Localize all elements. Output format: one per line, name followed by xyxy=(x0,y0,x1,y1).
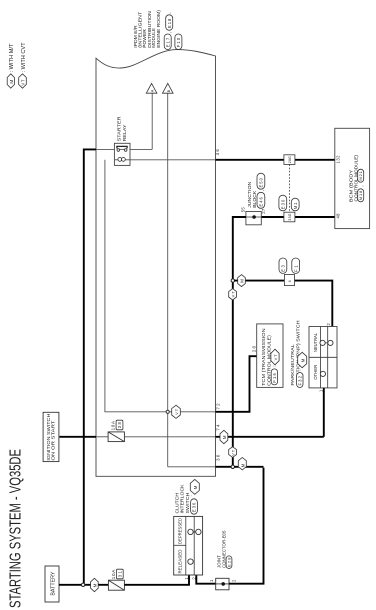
svg-text:A: A xyxy=(151,89,155,92)
inline connector square (pin 28) on line 46 xyxy=(284,155,295,165)
svg-text:E46: E46 xyxy=(259,196,264,206)
svg-text:20: 20 xyxy=(251,345,256,352)
svg-text:VT: VT xyxy=(231,449,236,456)
svg-text:31: 31 xyxy=(117,571,122,578)
fuse 31 xyxy=(108,580,124,590)
svg-text:ON OR START: ON OR START xyxy=(51,420,56,460)
wire triangle B riser xyxy=(167,93,169,467)
svg-text:RELEASED: RELEASED xyxy=(178,549,183,574)
svg-text:M: M xyxy=(300,358,305,362)
svg-text:46: 46 xyxy=(215,149,220,156)
wire pin 74 to PNP pin 1 riser xyxy=(216,436,324,438)
wire triangle A riser xyxy=(151,93,153,149)
svg-text:,: , xyxy=(259,190,264,191)
connector oval E30 xyxy=(279,195,287,211)
connector oval F16 xyxy=(271,365,277,385)
svg-text::: : xyxy=(297,369,302,370)
node J2 (open circle) xyxy=(231,465,234,468)
svg-text:M: M xyxy=(9,80,14,84)
connector oval M18 xyxy=(358,185,365,201)
svg-text:BATTERY: BATTERY xyxy=(50,571,56,595)
svg-text:F32: F32 xyxy=(298,375,303,385)
svg-text:: WITH M/T: : WITH M/T xyxy=(9,43,15,73)
svg-text:VT: VT xyxy=(231,291,236,298)
svg-text:33G: 33G xyxy=(288,213,292,220)
svg-text:ENGINE ROOM): ENGINE ROOM) xyxy=(156,10,161,48)
svg-text:M: M xyxy=(92,583,97,587)
svg-text:,: , xyxy=(167,32,172,33)
wire pin 30 line inside IPDM xyxy=(168,466,216,468)
svg-text:E3: E3 xyxy=(281,265,286,272)
svg-text:B: B xyxy=(167,89,171,92)
battery box xyxy=(45,566,59,602)
svg-text:E36: E36 xyxy=(192,502,197,512)
svg-text:: WITH CVT: : WITH CVT xyxy=(21,42,27,73)
svg-text:STARTER: STARTER xyxy=(117,116,123,142)
ignition switch box xyxy=(43,412,59,461)
svg-text:,: , xyxy=(359,185,364,186)
svg-text:132: 132 xyxy=(335,155,340,164)
svg-text:DEPRESSED: DEPRESSED xyxy=(178,517,183,544)
inline connector square (E3/F1) xyxy=(284,275,294,286)
wire joint connector to riser xyxy=(229,468,264,584)
TCM box xyxy=(257,324,283,388)
connector oval E18 xyxy=(166,12,173,30)
svg-text:VT: VT xyxy=(20,79,25,85)
node battery junction (open circle) xyxy=(81,583,84,586)
IPDM E/R box outline (wavy top) xyxy=(96,50,216,477)
svg-text:M18: M18 xyxy=(358,190,363,200)
svg-text:74: 74 xyxy=(215,424,220,431)
svg-text:10A: 10A xyxy=(111,569,116,579)
wire fuse 31 to clutch interlock switch pin 1 xyxy=(124,575,189,585)
svg-text::: : xyxy=(272,365,277,366)
svg-text:VT: VT xyxy=(174,408,179,415)
connector oval F10 xyxy=(175,34,182,50)
wire junction block left to J3 node riser xyxy=(233,217,246,467)
IPDM E/R label block xyxy=(133,10,161,48)
svg-text:F16: F16 xyxy=(272,373,277,383)
svg-text:F10: F10 xyxy=(176,37,181,47)
clutch interlock switch labels xyxy=(175,483,190,513)
wire junction to fuse 31 (through M hexagon) xyxy=(84,584,108,586)
hexagon tag M right of J3 xyxy=(238,275,246,287)
BCM box xyxy=(335,128,370,228)
hexagon tag M (clutch switch) xyxy=(190,479,199,494)
svg-text:72: 72 xyxy=(215,403,220,410)
fuse 38 number box xyxy=(116,420,123,430)
junction block xyxy=(246,212,261,225)
starter relay label xyxy=(117,116,128,142)
legend hexagon VT xyxy=(19,74,27,88)
fuse 38 xyxy=(108,432,124,442)
svg-text:27: 27 xyxy=(261,208,266,214)
hexagon tag M right of J2 xyxy=(238,458,246,470)
svg-text:M: M xyxy=(240,279,245,283)
connector oval E17 xyxy=(164,32,172,50)
svg-text:48: 48 xyxy=(335,213,340,219)
wire J3 to PNP switch pin 2 xyxy=(234,281,332,327)
svg-text:,: , xyxy=(167,12,172,13)
wire J2 to joint connector riser xyxy=(234,466,263,468)
svg-text:PARK/NEUTRAL: PARK/NEUTRAL xyxy=(290,344,295,386)
svg-text:M: M xyxy=(240,463,245,467)
hexagon tag M on battery wire xyxy=(91,578,99,591)
connector oval M21 xyxy=(358,169,364,182)
connector oval F32 xyxy=(297,369,303,387)
clutch interlock switch box xyxy=(174,516,203,575)
svg-text:55: 55 xyxy=(240,207,245,213)
svg-text::: : xyxy=(188,495,193,496)
wire fuse 38 to pin 74 (inside IPDM) xyxy=(124,436,215,438)
svg-text:10A: 10A xyxy=(111,420,116,430)
wire relay coil right to pin 46 (inside IPDM) xyxy=(130,159,216,161)
node J3 (open circle) xyxy=(231,279,234,282)
junction block label xyxy=(247,182,257,208)
svg-text:TCM (TRANSMISSION: TCM (TRANSMISSION xyxy=(261,328,266,386)
hexagon tag VT on pin72 line xyxy=(172,405,181,418)
svg-text:M: M xyxy=(222,435,227,439)
connector oval E28 xyxy=(226,556,232,569)
connector oval F1 xyxy=(292,258,300,273)
wire pin 72 to TCM xyxy=(216,356,257,412)
connector oval E46 xyxy=(257,190,265,208)
svg-text:E50: E50 xyxy=(259,177,264,187)
connector oval E3 xyxy=(279,258,287,273)
svg-text:E28: E28 xyxy=(227,557,232,567)
svg-text:M: M xyxy=(193,485,198,489)
connector oval M1 xyxy=(291,198,299,211)
svg-text:28G: 28G xyxy=(288,156,292,163)
svg-text:6: 6 xyxy=(288,280,292,282)
svg-text:CONNECTOR-E05: CONNECTOR-E05 xyxy=(221,530,226,568)
hexagon tag VT below J3 xyxy=(229,289,237,300)
dashed connector tie line xyxy=(288,164,290,212)
wire relay coil to VT node (pin 72 line) xyxy=(105,160,216,412)
triangle ref B xyxy=(163,83,174,93)
starter relay U1 xyxy=(96,143,152,165)
wire battery to junction xyxy=(59,584,82,586)
wire ignition switch to IPDM xyxy=(60,436,97,438)
hexagon tag VT (TCM) xyxy=(271,349,279,365)
wire pin 46 to BCM pin 132 xyxy=(216,159,335,161)
wire junction block to BCM pin 48 xyxy=(233,216,335,218)
svg-text:OTHER: OTHER xyxy=(313,364,318,380)
joint connector label xyxy=(217,530,227,568)
wire clutch switch pin 2 to joint connector xyxy=(196,575,216,584)
wire inside IPDM to fuse 38 xyxy=(96,436,108,438)
svg-text:RELAY: RELAY xyxy=(122,124,128,142)
connector oval E50 xyxy=(257,173,265,189)
svg-text:M21: M21 xyxy=(358,170,363,180)
svg-text:NEUTRAL: NEUTRAL xyxy=(313,333,318,352)
svg-text:30: 30 xyxy=(215,454,220,461)
wire pin 30 to M node xyxy=(216,466,232,468)
inline connector square (pin 330) on line 48 xyxy=(284,212,295,222)
legend hexagon M xyxy=(7,74,14,88)
svg-text:VT: VT xyxy=(273,354,278,361)
PNP switch box xyxy=(309,327,337,388)
svg-text:BLOCK: BLOCK xyxy=(252,190,257,208)
triangle ref A xyxy=(146,83,157,93)
svg-text:E18: E18 xyxy=(167,18,172,28)
hexagon tag VT above J2 xyxy=(229,447,237,458)
fuse 31 number box xyxy=(116,569,123,579)
wire PNP pin 1 down to line 74 xyxy=(323,388,325,437)
node VT junction (open circle) xyxy=(166,410,169,413)
svg-text:38: 38 xyxy=(117,422,122,429)
connector oval E36 xyxy=(188,495,198,514)
joint connector box E05 xyxy=(216,578,229,590)
svg-text:M1: M1 xyxy=(293,202,298,209)
svg-text:F1: F1 xyxy=(293,265,298,272)
PNP switch labels xyxy=(290,320,300,385)
hexagon tag M (PNP) xyxy=(298,352,307,367)
hexagon tag M on line 74 xyxy=(220,430,228,443)
svg-text:E17: E17 xyxy=(165,37,170,47)
svg-text:STARTING SYSTEM - VQ35DE: STARTING SYSTEM - VQ35DE xyxy=(8,449,25,608)
svg-text:E30: E30 xyxy=(280,199,285,209)
battery riser wire xyxy=(84,149,96,583)
